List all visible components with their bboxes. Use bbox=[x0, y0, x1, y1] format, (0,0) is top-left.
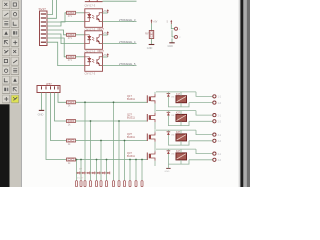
wire OK1 emitter net bbox=[103, 0, 137, 2]
+5V supply SJ1 bbox=[167, 20, 173, 24]
wire SJ1 to ground bbox=[171, 38, 173, 42]
svg-text:1N4: 1N4 bbox=[171, 96, 174, 98]
wire R8 bottom bbox=[151, 39, 153, 45]
wire drop x=76.5 bbox=[76, 160, 78, 181]
wire contact 2 row 4 bbox=[189, 159, 213, 161]
wire diode top row 3 bbox=[167, 130, 169, 132]
pad at x=90.5 bbox=[90, 181, 92, 187]
+5V supply R8 bbox=[151, 19, 158, 23]
svg-text:SV1?: SV1? bbox=[39, 7, 47, 11]
svg-text:+5V: +5V bbox=[153, 22, 158, 24]
wire SV1 pin3 to R1 bbox=[47, 13, 67, 22]
wire diode bottom / U row 3 bbox=[168, 135, 189, 145]
diode D4 freewheel bbox=[167, 151, 175, 156]
wire SJ1 pin2 bbox=[172, 30, 174, 37]
svg-text:K4?: K4? bbox=[176, 151, 181, 153]
pad at x=136 bbox=[135, 181, 137, 187]
wire drop x=136 bbox=[135, 160, 137, 181]
resistor R1 bbox=[67, 11, 76, 18]
resistor R6 bbox=[67, 139, 76, 146]
wire coil bottom row 2 bbox=[180, 121, 182, 125]
svg-text:CNY17-3: CNY17-3 bbox=[85, 71, 96, 75]
relay coil K1 bbox=[176, 94, 187, 103]
wire contact 2 row 3 bbox=[189, 140, 213, 142]
svg-text:2TOKANAL_5: 2TOKANAL_5 bbox=[119, 62, 136, 66]
svg-text:471: 471 bbox=[68, 37, 73, 40]
wire JP1 pin5 to R4 bbox=[58, 93, 67, 103]
svg-text:BUZ11: BUZ11 bbox=[127, 97, 135, 101]
wire drop x=119 bbox=[118, 121, 120, 180]
wire +12V rail row 1 bbox=[156, 91, 196, 93]
optocoupler OK3 bbox=[85, 31, 103, 50]
wire coil top row 3 bbox=[180, 130, 182, 134]
connector SV1 bbox=[39, 7, 48, 45]
transistor Q4 (BUZ11) bbox=[147, 151, 155, 160]
wire coil bottom row 4 bbox=[180, 160, 182, 164]
wire SV1 pin2 to OK1 cathode (off-screen) bbox=[47, 0, 57, 18]
pad contact 2b bbox=[213, 120, 216, 123]
relay coil K4 bbox=[176, 151, 187, 160]
wire drop x=96.5 bbox=[96, 160, 98, 181]
svg-text:BUZ11: BUZ11 bbox=[127, 116, 135, 120]
wire SV1 pin6 to OK3 cathode bbox=[47, 34, 85, 44]
pad at x=85 bbox=[84, 181, 86, 187]
ground GND4 bbox=[166, 167, 170, 169]
wire gate row 4 bbox=[76, 159, 148, 161]
svg-text:1N4: 1N4 bbox=[171, 135, 174, 137]
svg-text:GND: GND bbox=[165, 171, 170, 173]
svg-text:2TOKANAL_4: 2TOKANAL_4 bbox=[119, 40, 136, 44]
wire drain to rail row 3 bbox=[154, 130, 156, 132]
pad at x=76.5 bbox=[76, 181, 78, 187]
left toolbar background bbox=[0, 0, 22, 187]
svg-text:471: 471 bbox=[68, 59, 73, 62]
+5V supply at OK3 bbox=[103, 31, 109, 35]
wire +12V rail row 2 bbox=[156, 110, 196, 112]
svg-text:GND: GND bbox=[147, 47, 153, 50]
pad at x=106.5 bbox=[106, 181, 108, 187]
wire drop x=101 bbox=[100, 141, 102, 181]
wire JP1 pin3 to R6 bbox=[51, 93, 67, 141]
+5V supply at OK2 bbox=[103, 9, 109, 13]
pad at x=113.5 bbox=[113, 181, 115, 187]
right window strip bbox=[239, 0, 250, 187]
resistor R7 bbox=[67, 158, 76, 165]
ground GND3 bbox=[168, 43, 175, 48]
svg-text:GND: GND bbox=[168, 45, 174, 48]
svg-text:CNY17-3: CNY17-3 bbox=[85, 27, 96, 31]
wire drop x=124.5 bbox=[124, 141, 126, 181]
wire R2 to opto anode bbox=[76, 34, 85, 36]
wire OK2 emitter net bbox=[103, 21, 137, 23]
wire +12V rail row 4 bbox=[156, 148, 196, 150]
wire coil bottom row 1 bbox=[180, 103, 182, 107]
wire SV1 pin1 to OK1 anode (off-screen) bbox=[47, 0, 53, 15]
wire coil top row 1 bbox=[180, 92, 182, 96]
schematic group bbox=[37, 0, 222, 187]
optocoupler OK1 (cut off at top) bbox=[85, 0, 103, 8]
svg-text:OK3?: OK3? bbox=[98, 50, 105, 53]
wire OK3 emitter net bbox=[103, 43, 137, 45]
pad contact 4a bbox=[213, 152, 216, 155]
wire coil top row 4 bbox=[180, 149, 182, 153]
wire +12V rail row 3 bbox=[156, 129, 196, 131]
svg-text:+5V: +5V bbox=[103, 54, 108, 57]
optocoupler OK4 bbox=[85, 53, 103, 72]
wire drop x=106.5 bbox=[106, 160, 108, 181]
connector JP1 bbox=[37, 83, 60, 93]
svg-text:CNY17-3: CNY17-3 bbox=[85, 4, 96, 8]
wire gate row 2 bbox=[76, 120, 148, 122]
svg-text:2TOKANAL_3: 2TOKANAL_3 bbox=[119, 18, 136, 22]
ground GND1 bbox=[38, 110, 45, 116]
wire SV1 pin5 to R2 bbox=[47, 30, 67, 35]
resistor R5 bbox=[67, 120, 76, 127]
wire source down row 2 bbox=[154, 122, 156, 130]
diode D3 freewheel bbox=[167, 132, 175, 137]
pad at x=124.5 bbox=[124, 181, 126, 187]
wire drop x=90.5 bbox=[90, 121, 92, 180]
wire diode top row 2 bbox=[167, 111, 169, 113]
wire drop x=85 bbox=[84, 102, 86, 180]
wire SV1 pin7 to R3 bbox=[47, 38, 67, 57]
wire diode top row 4 bbox=[167, 149, 169, 151]
wire drain to rail row 2 bbox=[154, 111, 156, 113]
transistor Q1 (BUZ11) bbox=[147, 94, 155, 103]
ground GND2 bbox=[147, 45, 155, 50]
wire contact 1 row 2 bbox=[196, 111, 213, 116]
svg-text:1N4: 1N4 bbox=[171, 115, 174, 117]
wire OK4 emitter net bbox=[103, 65, 137, 67]
wire diode bottom / U row 2 bbox=[168, 116, 189, 126]
pad at x=130 bbox=[129, 181, 131, 187]
pad contact 1b bbox=[213, 101, 216, 104]
wire SJ1 pin1 bbox=[171, 24, 174, 29]
svg-text:BUZ11: BUZ11 bbox=[127, 154, 135, 158]
wire R8 top bbox=[151, 23, 153, 30]
wire drop x=130 bbox=[129, 160, 131, 181]
wire source to ground row 4 bbox=[154, 161, 156, 166]
svg-text:R8?: R8? bbox=[145, 34, 150, 36]
wire SV1 pin4 to OK2 cathode bbox=[47, 22, 85, 26]
svg-text:K2?: K2? bbox=[176, 113, 181, 115]
wire drop x=81 bbox=[80, 160, 82, 181]
pad at x=81 bbox=[80, 181, 82, 187]
wire contact 2 row 1 bbox=[189, 102, 213, 104]
pad at x=96.5 bbox=[96, 181, 98, 187]
wire source down row 1 bbox=[154, 104, 156, 112]
pad SJ1-2 bbox=[175, 35, 178, 38]
svg-text:471: 471 bbox=[68, 15, 73, 18]
wire R3 to opto anode bbox=[76, 56, 85, 58]
wire contact 2 row 2 bbox=[189, 120, 213, 122]
wire diode bottom / U row 1 bbox=[168, 97, 189, 107]
wire JP1 pin2 to R7 bbox=[46, 93, 67, 160]
wire coil top row 2 bbox=[180, 111, 182, 115]
svg-text:K1?: K1? bbox=[176, 94, 181, 96]
svg-text:OK2?: OK2? bbox=[98, 28, 105, 31]
pad contact 3a bbox=[213, 133, 216, 136]
svg-text:1N4: 1N4 bbox=[171, 154, 174, 156]
svg-text:GND: GND bbox=[38, 112, 44, 116]
transistor Q3 (BUZ11) bbox=[147, 132, 155, 141]
pad contact 2a bbox=[213, 114, 216, 117]
diode D1 freewheel bbox=[167, 94, 175, 99]
svg-text:CNY17-3: CNY17-3 bbox=[85, 49, 96, 53]
wire coil bottom row 3 bbox=[180, 141, 182, 145]
transistor Q2 (BUZ11) bbox=[147, 113, 155, 122]
wire drain to rail row 4 bbox=[154, 149, 156, 151]
wire contact 1 row 3 bbox=[196, 130, 213, 135]
wire SV1 pin8 to OK4 cathode bbox=[47, 42, 85, 65]
pad contact 4b bbox=[213, 158, 216, 161]
wire drop x=113.5 bbox=[113, 102, 115, 180]
relay coil K3 bbox=[176, 132, 187, 141]
optocoupler OK2 bbox=[85, 9, 103, 28]
resistor R8 (vertical) bbox=[145, 31, 154, 39]
wire JP1 pin4 to R5 bbox=[55, 93, 67, 122]
wire diode bottom / U row 4 bbox=[168, 154, 189, 164]
svg-text:K3?: K3? bbox=[176, 132, 181, 134]
pad at x=119 bbox=[118, 181, 120, 187]
pad contact 3b bbox=[213, 139, 216, 142]
wire gate row 1 bbox=[76, 101, 148, 103]
+5V supply at OK4 bbox=[103, 53, 109, 57]
pad contact 1a bbox=[213, 95, 216, 98]
wire contact 1 row 4 bbox=[196, 149, 213, 154]
svg-text:+5V: +5V bbox=[103, 32, 108, 35]
svg-text:D1..D7: D1..D7 bbox=[77, 177, 84, 179]
pad at x=101 bbox=[100, 181, 102, 187]
svg-text:BUZ11: BUZ11 bbox=[127, 135, 135, 139]
svg-text:+5V: +5V bbox=[103, 10, 108, 13]
wire drain to rail row 1 bbox=[154, 92, 156, 94]
svg-text:JP5?: JP5? bbox=[46, 83, 52, 86]
resistor R3 bbox=[67, 55, 76, 62]
wire contact 1 row 1 bbox=[196, 92, 213, 97]
wire R1 to opto anode bbox=[76, 12, 85, 14]
resistor R4 bbox=[67, 101, 76, 108]
pad at x=142 bbox=[141, 181, 143, 187]
diode D2 freewheel bbox=[167, 112, 175, 117]
diode row D1..D7 bbox=[76, 169, 110, 180]
wire JP1 pin1 to ground bbox=[41, 93, 43, 111]
relay coil K2 bbox=[176, 113, 187, 122]
wire drop x=142 bbox=[141, 160, 143, 181]
resistor R2 bbox=[67, 33, 76, 40]
wire source down row 3 bbox=[154, 142, 156, 150]
wire diode top row 1 bbox=[167, 92, 169, 94]
pad SJ1-1 bbox=[175, 27, 178, 30]
wire gate row 3 bbox=[76, 140, 148, 142]
